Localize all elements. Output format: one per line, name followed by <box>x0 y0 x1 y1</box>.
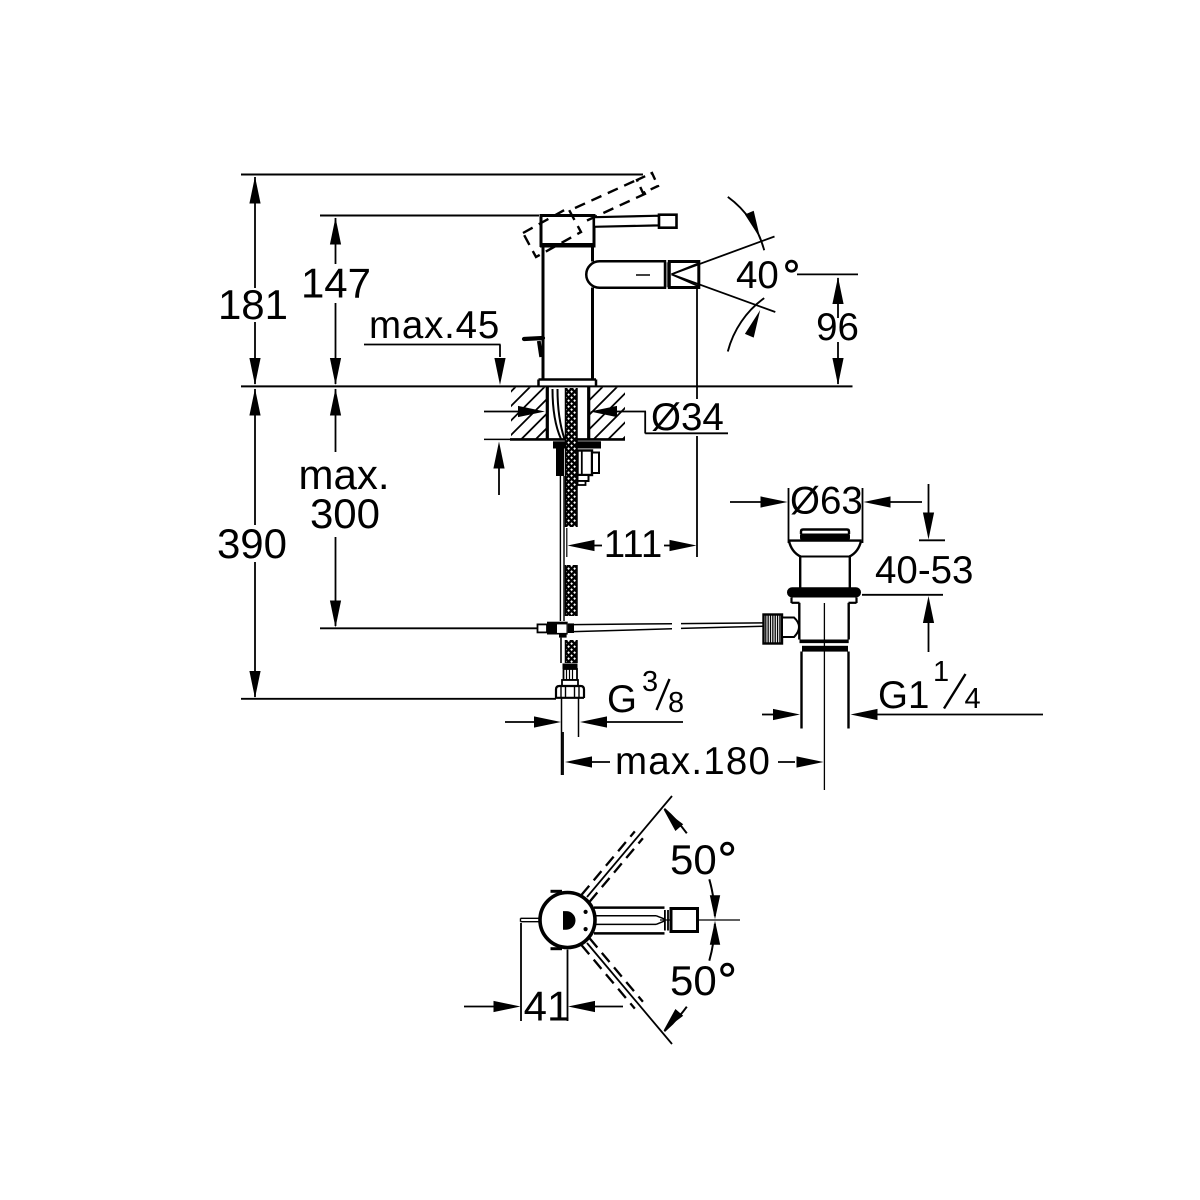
svg-text:41: 41 <box>524 983 571 1030</box>
svg-text:G: G <box>607 678 637 721</box>
svg-text:50: 50 <box>670 836 717 883</box>
svg-text:8: 8 <box>668 687 684 719</box>
svg-text:1: 1 <box>933 656 949 688</box>
svg-text:390: 390 <box>217 520 287 567</box>
svg-text:G1: G1 <box>878 674 929 717</box>
svg-text:50: 50 <box>670 957 717 1004</box>
svg-text:max.180: max.180 <box>615 740 771 783</box>
svg-text:147: 147 <box>301 260 371 307</box>
svg-text:Ø63: Ø63 <box>790 480 863 523</box>
svg-text:3: 3 <box>642 666 658 698</box>
svg-text:4: 4 <box>965 683 981 715</box>
svg-text:40-53: 40-53 <box>875 549 973 592</box>
svg-text:max.45: max.45 <box>369 304 500 347</box>
svg-text:181: 181 <box>218 281 288 328</box>
svg-text:40: 40 <box>736 254 779 297</box>
svg-text:111: 111 <box>604 523 663 566</box>
svg-text:Ø34: Ø34 <box>651 396 724 439</box>
svg-text:300: 300 <box>310 490 380 537</box>
svg-text:96: 96 <box>816 306 859 349</box>
